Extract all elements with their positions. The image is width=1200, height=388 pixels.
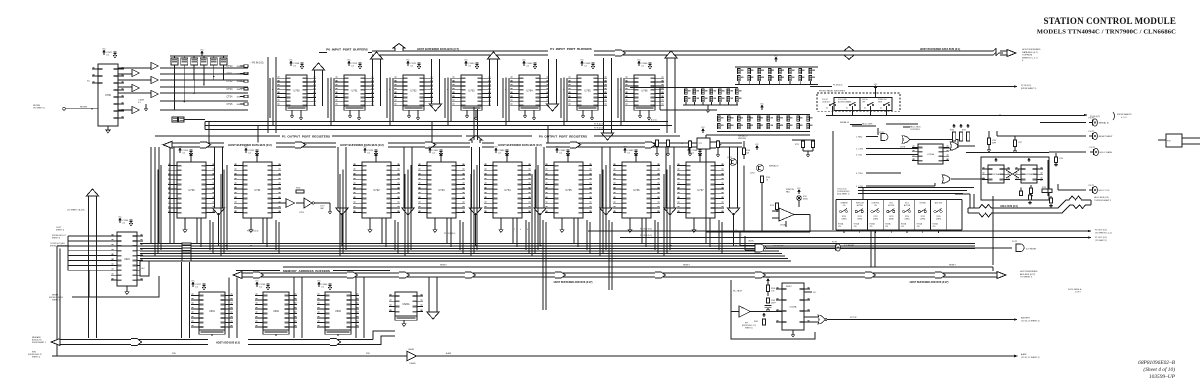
svg-text:U604B: U604B [409,363,416,365]
host buffered add bus band [233,272,242,279]
vcc pin U737 [699,158,701,162]
svg-text:(TO U1–12 SHEET 4): (TO U1–12 SHEET 4) [1021,357,1040,359]
IC U732 output port register [362,162,391,218]
label N.C. [804,291,812,293]
led/switch cell 6 [914,200,916,231]
wl_tach frame [731,280,815,339]
svg-text:U765: U765 [584,89,591,93]
IC U7010 input port buffer [344,75,365,106]
svg-text:HDLC CLK: HDLC CLK [1099,190,1110,192]
svg-text:P.6 P2: P.6 P2 [1012,241,1017,243]
capacitor C737 [1014,136,1016,140]
banner: P1 OUTPUT PORT REGISTERS [155,135,280,137]
IC U603 memory address buffer [325,292,351,330]
wire bundle left of U763 [447,78,449,126]
svg-text:220: 220 [838,226,841,228]
wire inverter chain [271,202,286,204]
svg-text:TO/FROM: TO/FROM [1022,55,1032,57]
svg-text:R/W: R/W [172,353,176,355]
nand gate U718A [881,134,888,141]
buffer U707E [151,90,158,97]
capacitor C1098 [581,61,584,66]
IC U7011 input port buffer [403,75,424,106]
svg-text:R/W: R/W [366,353,370,355]
wires bank connections [660,109,717,111]
wire risers U733 [410,166,412,250]
svg-text:HOST BUFFERED: HOST BUFFERED [1020,271,1038,273]
svg-text:ACTIVE: ACTIVE [857,204,864,207]
wire bundle left of U764 [505,78,507,126]
wires above led array [858,187,974,189]
IC U709 input port buffer [286,75,307,106]
svg-text:ICT RESET: ICT RESET [844,245,855,247]
svg-text:3. CS5: 3. CS5 [856,155,862,157]
svg-text:(GRN): (GRN) [936,218,941,220]
svg-text:TO/FROM SHEET 3: TO/FROM SHEET 3 [1094,200,1111,202]
or gate U721A [950,142,958,150]
svg-text:MEMORY ADDRESS BUFFERS: MEMORY ADDRESS BUFFERS [283,269,330,273]
connector P6 ICT reset mid [836,244,841,251]
ground under U736 [629,218,631,228]
capacitor C1040 [523,61,526,66]
capacitor C1117 [192,282,195,287]
add bus chevrons [253,272,264,278]
svg-text:(FROM SHEET 1): (FROM SHEET 1) [1021,88,1037,90]
resistor bank A [775,57,778,62]
components near C744 cluster [702,129,704,133]
IC U719B [1021,165,1037,183]
svg-text:CTS3: CTS3 [227,89,234,91]
vcc station fail [798,190,800,194]
svg-text:C7: C7 [681,143,683,145]
svg-text:N.C.: N.C. [87,81,91,83]
capacitor C1064 [318,282,321,287]
bus junction block [182,243,191,245]
ground under U766 [639,110,641,114]
svg-text:P1 OUT (0:2): P1 OUT (0:2) [1095,237,1107,239]
svg-text:7: 7 [741,235,742,237]
capacitor C508 [766,298,769,303]
svg-text:/XMIT: /XMIT [878,101,882,103]
svg-text:HOST BUFFERED ADD BUS (0:27): HOST BUFFERED ADD BUS (0:27) [910,281,949,284]
resistor bank C [761,105,764,110]
svg-text:HOST BUFFERED DATA BUS (0:7): HOST BUFFERED DATA BUS (0:7) [417,47,459,51]
IC U706 [98,64,118,126]
vcc pin U731 [256,158,258,162]
svg-text:TO SHEET 3: TO SHEET 3 [1020,277,1033,279]
wire P1 IN to sheet1 [848,86,1014,88]
or gate U517A [818,315,825,324]
IC U719A [988,165,1004,183]
wires from U706 to buffers [118,67,151,69]
svg-text:103599–UP: 103599–UP [1149,374,1176,380]
svg-text:HOST ADD BUS (0:2): HOST ADD BUS (0:2) [216,341,240,344]
svg-text:R739: R739 [1042,187,1046,189]
svg-text:MEM ADD: MEM ADD [32,336,41,339]
resistor R509 [763,313,765,317]
svg-text:P1 B (0:1): P1 B (0:1) [648,120,657,122]
svg-text:SHEET 1): SHEET 1) [32,357,40,359]
crossing wires between U719A/B [1006,170,1019,178]
capacitor C1089 [624,148,627,153]
svg-text:FROM SHEETS: FROM SHEETS [1117,114,1132,116]
svg-text:SERIAL ID: SERIAL ID [840,121,850,124]
wire bundle left of U766 [620,78,622,126]
inverter U753A [286,199,295,208]
svg-text:R509: R509 [754,321,758,323]
IC U731 output port register [243,162,272,218]
ground under U706 [106,128,110,133]
svg-text:220: 220 [917,226,920,228]
capacitor C1121 [407,61,410,66]
led DS701 [797,196,802,201]
IC U7015 input port buffer [634,75,655,106]
svg-text:(U61) SHEET 1): (U61) SHEET 1) [837,193,850,195]
svg-text:ICT RESET: ICT RESET [1026,249,1037,251]
capacitor C1100 [119,218,122,223]
svg-text:HDLC BUS (0:2): HDLC BUS (0:2) [1000,206,1018,208]
net tag boxes P B lines [172,117,178,122]
svg-text:P.6 P4: P.6 P4 [1089,117,1096,119]
svg-text:R736: R736 [950,130,954,132]
svg-text:U736: U736 [633,188,640,192]
svg-text:P0 INPUT PORT BUFFERS: P0 INPUT PORT BUFFERS [326,48,367,52]
buffer U707B [132,69,139,76]
svg-text:P0 OUT (0:2): P0 OUT (0:2) [1095,230,1107,232]
transistor Q751 [730,159,737,166]
capacitor C1046 [638,61,641,66]
svg-text:RESET: RESET [786,286,792,288]
svg-text:U760: U760 [293,89,300,93]
or gate U721B [942,175,950,183]
resistor network top left [170,55,228,57]
svg-text:(TO SHEET 1): (TO SHEET 1) [33,108,45,110]
svg-text:(TO SHEET 1 A & B): (TO SHEET 1 A & B) [67,209,85,212]
wire risers U730 [160,166,162,250]
svg-text:C508: C508 [771,300,775,302]
svg-text:2. CTS3: 2. CTS3 [856,149,863,151]
svg-text:ACTIVE: ACTIVE [904,204,911,207]
transistor Q752 [757,165,764,172]
svg-text:U51: U51 [741,308,744,310]
banner band 1 [163,141,172,148]
op-amp U752A [779,208,794,221]
svg-text:C737: C737 [1018,142,1022,144]
capacitor C1129 [364,148,367,153]
svg-text:220: 220 [933,226,936,228]
svg-text:P0 OUTPUT PORT REGISTERS: P0 OUTPUT PORT REGISTERS [539,135,587,139]
wires into U622 [68,235,111,237]
svg-text:(GRN): (GRN) [842,218,847,220]
svg-text:U614A: U614A [748,240,754,243]
capacitor C740 [1055,153,1057,157]
IC U720A [918,144,943,164]
svg-text:STATION CONTROL MODULE: STATION CONTROL MODULE [1044,16,1177,26]
vcc front panel [874,86,876,90]
inverter U753B [304,198,312,208]
connector P6 hdlc clk [1058,189,1086,191]
bus channel v6 [604,58,612,133]
svg-text:U719A: U719A [993,173,1000,176]
svg-text:(GRN): (GRN) [873,218,878,220]
resistor R713 [775,203,778,210]
svg-text:4: 4 [520,229,521,231]
svg-text:R713: R713 [770,205,774,207]
svg-text:U604B: U604B [408,349,415,351]
vcc pin U733 [440,158,442,162]
svg-text:VOL DOWN: VOL DOWN [838,99,847,101]
svg-text:RESET: RESET [949,265,956,267]
svg-text:4. TXLD: 4. TXLD [856,173,864,175]
svg-text:P1 OUT (0:2): P1 OUT (0:2) [640,235,652,237]
svg-text:A A/W: A A/W [446,352,451,355]
svg-text:24: 24 [735,230,737,232]
svg-text:P1 OUT (0:2): P1 OUT (0:2) [444,233,456,235]
svg-text:VERTER: VERTER [738,138,747,140]
wire risers U735 [537,166,539,250]
or gate U717B [902,136,910,144]
wire bundle left of U762 [389,78,391,126]
wire bundle: host buffered data lines [140,242,975,244]
bus channel v4 [490,59,498,106]
wire serial bottom [706,231,810,233]
ground under U735 [561,218,563,228]
svg-text:(GRN): (GRN) [905,218,910,220]
bus segment right [908,51,989,55]
svg-text:P.6 P2: P.6 P2 [1089,131,1096,133]
memory buffer drop channels [182,262,190,338]
svg-text:U603: U603 [335,310,341,313]
svg-text:INTERCOM: INTERCOM [878,99,887,101]
IC U734 output port register [493,162,522,218]
vcc pin U736 [635,158,637,162]
wire P1 OUT line [620,237,1088,239]
connector P6 hdlc data [1049,151,1086,153]
svg-text:BATTERY: BATTERY [1021,317,1031,320]
svg-text:(Sheet 4 of 10): (Sheet 4 of 10) [1143,366,1175,373]
wire risers U737 [669,166,671,250]
capacitor C742 [1050,196,1052,198]
wire serial top [706,134,810,136]
svg-text:(TO SHEET 5): (TO SHEET 5) [1095,240,1107,242]
ground under U737 [693,218,695,228]
svg-text:220: 220 [854,226,857,228]
IC U518A [782,283,804,330]
svg-text:220: 220 [901,226,904,228]
bus channel v3 [432,59,440,104]
frame around U622 section [89,270,159,297]
svg-text:U735: U735 [565,188,572,192]
wire risers U732 [345,166,347,250]
svg-text:R712: R712 [795,144,799,146]
vcc Q752 [756,146,758,150]
bus channel v1 [315,70,323,106]
capacitor C1080 [495,148,498,153]
wire P0 IN line [846,115,1084,117]
svg-text:HOST BUFFERED: HOST BUFFERED [1022,49,1041,51]
buffer U707C [151,76,158,83]
svg-text:U719B: U719B [1026,174,1033,176]
banner drop channels [215,147,223,208]
ground under U764 [524,110,526,114]
wire R/W line [52,355,407,357]
led/switch cell 8 [945,200,947,231]
IC U7012 input port buffer [461,75,482,106]
resistor R712 [792,139,815,141]
ground U518A [792,330,794,333]
wire risers U731 [226,166,228,250]
bus bump (top bus) [841,47,857,52]
bus channel v2 [373,59,381,106]
banner: P0 OUTPUT PORT REGISTERS [466,135,532,137]
bus chevron (top bus) [615,50,626,56]
svg-text:U737: U737 [697,188,704,192]
svg-text:2 OF 4: 2 OF 4 [1075,292,1081,294]
buffer U604B [407,351,417,361]
sub block A-C [140,261,149,276]
svg-text:(GRN): (GRN) [889,218,894,220]
svg-text:U766: U766 [641,89,648,93]
vcc U719 [995,158,997,162]
svg-text:HOST BUFFERED DATA BUS (0:1): HOST BUFFERED DATA BUS (0:1) [920,48,961,51]
banner band 2 [482,143,742,147]
svg-text:CTS4: CTS4 [227,96,234,98]
ladder verticals from resistor row [174,65,176,110]
svg-text:U764: U764 [526,89,533,93]
buffer U707D [132,84,139,91]
IC U622 [117,232,137,286]
capacitor C1083 [556,148,559,153]
wire CTS row bottom [160,109,248,111]
led/switch cell 1 [835,200,837,231]
svg-text:AUX LED: AUX LED [935,201,943,204]
svg-text:U601: U601 [209,310,215,313]
wire: P B lines under top row [205,121,668,123]
resistor bank B [683,87,738,89]
svg-text:33PF: 33PF [992,142,996,144]
svg-text:P.6 P1: P.6 P1 [1089,185,1096,187]
svg-text:ACTIVE: ACTIVE [888,204,895,207]
capacitor C1030 [465,61,468,66]
extra risers top area [208,122,210,143]
svg-text:U731: U731 [254,188,261,192]
ground under U763 [466,110,468,114]
bottom bus jog up [373,331,395,345]
ground under U761 [349,110,351,114]
buffer U707A [151,62,158,69]
svg-text:OFF: OFF [862,101,865,103]
IC U737 output port register [686,162,715,218]
led/switch cell 7 [930,200,932,231]
svg-text:HDLC BUS: HDLC BUS [910,127,921,129]
bottom bus chevrons [131,338,142,345]
led/switch cell 4 [882,200,884,231]
svg-text:HOST BUFFERED DATA BUS (0:2): HOST BUFFERED DATA BUS (0:2) [228,143,272,147]
IC U602 memory address buffer [263,292,289,330]
ground under U732 [369,218,371,228]
svg-text:U706: U706 [105,94,111,97]
ground under U731 [250,218,252,228]
svg-text:HOST BUFFERED DATA BUS (0:2): HOST BUFFERED DATA BUS (0:2) [340,143,384,147]
gate U614A ICT reset [755,244,764,252]
resistor pair left of serial [655,140,658,147]
ground under U730 [184,218,186,228]
wire A A/W line [417,355,1014,357]
svg-text:(TO SHEETS 5, 6, 4): (TO SHEETS 5, 6, 4) [1095,232,1112,234]
capacitor C1114 [179,148,182,153]
ground under U733 [434,218,436,228]
resistor R706 [760,176,763,183]
bus channel left tall [268,57,276,133]
svg-text:U752A: U752A [780,224,786,227]
svg-text:U734: U734 [504,188,511,192]
capacitor C741 [1029,193,1031,195]
capacitor C1104 [688,148,691,153]
IC U601 memory address buffer [199,292,225,330]
vcc pin U735 [567,158,569,162]
svg-text:(GRN): (GRN) [920,218,925,220]
vcc pin U732 [375,158,377,162]
wires hdlc gates extra [910,139,958,141]
svg-text:HOST BUFFERED DATA BUS (0:2): HOST BUFFERED DATA BUS (0:2) [498,143,542,147]
resistor R708 [742,148,745,155]
IC U736 output port register [622,162,651,218]
svg-text:SERIAL ID: SERIAL ID [769,165,779,168]
svg-text:ADD BUS (0:27): ADD BUS (0:27) [1020,273,1036,276]
capacitor C736 [988,131,990,138]
svg-text:WL_TACH: WL_TACH [733,290,743,293]
svg-text:FROM SHEET 1: FROM SHEET 1 [32,342,46,344]
svg-text:VOL UP: VOL UP [822,99,828,101]
svg-text:RESET: RESET [440,265,447,267]
wire battery line [827,319,1014,321]
IC U733 output port register [427,162,456,218]
banner: MEMORY ADDRESS BUFFERS [236,270,280,272]
hdlc bus band [968,196,1091,208]
svg-text:A A/W: A A/W [1021,353,1027,356]
wires hdlc gates [886,123,918,125]
ground under U762 [408,110,410,114]
capacitor C1091 [429,148,432,153]
capacitor C1108 [290,61,293,66]
svg-text:6: 6 [527,229,528,231]
bus arrow up (top bus) [393,44,405,52]
svg-text:CTS5: CTS5 [227,104,234,106]
riser wires below mid ICs [150,147,152,244]
svg-text:RESET: RESET [683,265,690,267]
svg-text:FL070–38606–A: FL070–38606–A [1068,288,1082,291]
svg-text:U620A: U620A [402,303,409,306]
switch symbols [829,104,831,106]
ground under U765 [582,110,584,114]
svg-text:(TO U6–73 SHEET 4): (TO U6–73 SHEET 4) [1021,320,1040,322]
wires hdlc area verticals [1047,160,1049,196]
svg-text:RESET BEEP: RESET BEEP [1099,136,1113,138]
bus channel v5 [549,59,557,104]
wire P0 OUT line [588,230,1088,232]
svg-text:P.6 P1: P.6 P1 [1090,147,1097,149]
svg-text:U717B: U717B [900,147,906,149]
svg-text:U720A: U720A [927,153,934,156]
wire bundle left of U765 [563,78,565,126]
svg-text:(RED): (RED) [803,198,808,200]
wires stubs to U720A [874,148,918,150]
led/switch cell 2 [851,200,853,231]
svg-text:68P81096E02–B: 68P81096E02–B [1138,360,1176,366]
vert pair below banner bump [473,107,475,140]
svg-text:220: 220 [885,226,888,228]
svg-text:U732: U732 [373,188,380,192]
